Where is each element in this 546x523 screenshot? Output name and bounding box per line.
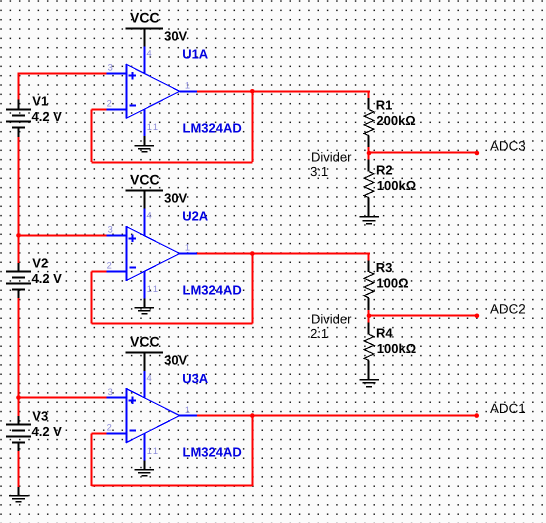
svg-text:LM324AD: LM324AD [183,445,242,460]
svg-text:ADC1: ADC1 [490,401,526,416]
svg-text:R1: R1 [376,98,393,113]
svg-text:4.2 V: 4.2 V [32,424,63,439]
svg-text:30V: 30V [164,353,187,368]
svg-text:R3: R3 [376,260,393,275]
svg-text:1: 1 [185,243,190,253]
svg-text:LM324AD: LM324AD [183,283,242,298]
svg-text:3: 3 [108,387,113,397]
svg-text:30V: 30V [164,191,187,206]
svg-text:U1A: U1A [182,47,209,62]
svg-text:4: 4 [147,211,152,221]
svg-text:LM324AD: LM324AD [183,120,242,135]
svg-text:VCC: VCC [130,334,160,350]
svg-text:3:1: 3:1 [310,164,328,179]
svg-text:4.2 V: 4.2 V [32,271,63,286]
svg-text:U2A: U2A [182,209,209,224]
svg-text:Divider: Divider [311,149,352,164]
svg-text:V3: V3 [32,409,48,424]
svg-text:1: 1 [185,81,190,91]
svg-text:1: 1 [185,405,190,415]
svg-text:VCC: VCC [130,172,160,188]
svg-text:30V: 30V [164,28,187,43]
svg-text:ADC3: ADC3 [490,139,526,154]
svg-text:2: 2 [107,423,112,433]
svg-text:200kΩ: 200kΩ [376,113,415,128]
svg-text:4.2 V: 4.2 V [32,109,63,124]
svg-text:100kΩ: 100kΩ [377,178,416,193]
svg-text:100kΩ: 100kΩ [377,341,416,356]
svg-text:R4: R4 [376,325,393,340]
svg-text:11: 11 [147,446,160,456]
svg-text:2:1: 2:1 [310,326,328,341]
svg-text:100Ω: 100Ω [376,275,408,290]
svg-text:2: 2 [107,261,112,271]
svg-text:U3A: U3A [182,371,209,386]
svg-text:11: 11 [147,122,160,132]
svg-text:3: 3 [108,63,113,73]
svg-text:3: 3 [108,225,113,235]
svg-text:V2: V2 [32,256,48,271]
svg-text:VCC: VCC [130,9,160,25]
svg-text:2: 2 [107,98,112,108]
svg-text:Divider: Divider [311,311,352,326]
svg-text:11: 11 [147,284,160,294]
svg-text:V1: V1 [32,94,48,109]
svg-text:4: 4 [147,49,152,59]
svg-text:ADC2: ADC2 [490,301,526,316]
svg-text:R2: R2 [376,163,393,178]
svg-text:4: 4 [147,373,152,383]
